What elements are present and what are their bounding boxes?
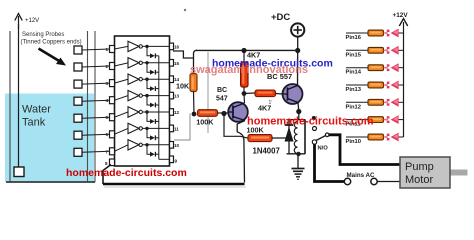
transistor Q2 BC557 [267,72,303,104]
+DC supply symbol [271,12,304,51]
probe 4 [74,97,110,105]
mains terminal N [371,178,377,184]
relay armature terminal [313,127,317,131]
positive rail [196,49,298,51]
pin 3 stub [105,80,114,87]
node coil bottom [296,152,300,156]
wire relay top bar [287,119,306,121]
annotation: sensing probes [21,32,82,66]
internal diode 1 [147,46,159,58]
svg-text:8: 8 [105,161,108,166]
svg-text:15: 15 [174,61,180,66]
pin 11 stub [170,125,180,132]
svg-text:4: 4 [105,98,108,103]
wire relay bottom bar [287,153,306,155]
legend row Pin16 [346,33,369,41]
resistor 4K7 (collector load) [241,48,261,94]
svg-text:11: 11 [174,126,179,131]
svg-text:homemade-circuits.com: homemade-circuits.com [66,167,187,179]
resistor legend 4 [368,82,384,88]
svg-text:Motor: Motor [405,174,433,186]
svg-text:homemade-circuits.com: homemade-circuits.com [247,116,374,128]
ghost line [207,52,209,133]
svg-text:2: 2 [105,64,108,69]
node collector junction [242,91,247,96]
LED 6 [384,115,404,124]
svg-text:N/O: N/O [318,146,329,152]
node base junction [192,112,197,117]
wire collector BC557 down [297,103,300,112]
probe 7 [74,148,110,156]
svg-text:Water: Water [22,104,51,116]
legend row Pin13 [346,85,369,93]
svg-text:Pin13: Pin13 [346,87,362,93]
svg-text:547: 547 [216,95,228,102]
wire to ground [297,154,299,169]
wire +12V down to common probe [18,24,20,167]
ground [292,169,305,180]
svg-text:Pin10: Pin10 [346,139,361,145]
svg-text:100K: 100K [196,118,214,127]
legend row Pin15 [346,50,369,58]
LED 1 [384,29,404,38]
LED 3 [384,63,404,72]
svg-text:Pin16: Pin16 [346,35,362,41]
inverter 7 [115,140,170,152]
svg-text:Pump: Pump [405,161,434,173]
relay pole terminal [312,116,316,120]
svg-text:9: 9 [175,159,178,164]
resistor 4K7 (base BC557) [255,90,283,113]
rail shadow [104,186,246,188]
wire emitter BC557 to rail [297,51,299,86]
stray dot [184,9,186,11]
svg-text:1: 1 [105,47,108,52]
wire collector up [243,94,246,104]
node +DC junction [295,48,300,53]
resistor legend 7 [368,134,384,140]
inverter 2 [115,58,170,68]
svg-text:10: 10 [174,143,180,148]
svg-text:+12V: +12V [393,12,409,19]
svg-text:Pin12: Pin12 [346,104,361,110]
water tank [5,31,95,182]
node base junction 2 [221,111,226,116]
mains terminal L [344,178,350,184]
svg-text:(Tinned Coppers ends): (Tinned Coppers ends) [21,39,82,45]
legend row Pin12 [346,102,369,110]
svg-text:1N4007: 1N4007 [253,147,280,156]
svg-text:5: 5 [105,115,108,120]
LED 5 [384,98,404,107]
pin 10 stub [170,142,180,149]
legend row Pin14 [346,68,369,76]
internal diode 6 [147,128,159,140]
inverter 4 [115,90,170,100]
+12V rail (legend) [393,12,409,137]
svg-text:Pin15: Pin15 [346,52,362,58]
pin 1 stub [105,46,114,53]
svg-text:12: 12 [174,110,180,115]
probe 3 [74,80,110,88]
N/O contact [312,140,328,152]
svg-text:7: 7 [105,149,108,154]
pin 12 stub [170,109,180,116]
wire N/O to mains [315,144,345,181]
resistor 100K (base) [196,110,229,127]
relay coil [294,120,305,154]
pin 8 stub [105,159,115,166]
inverter 5 [115,107,170,117]
svg-text:10K: 10K [176,82,190,91]
svg-text:1ʹ: 1ʹ [269,99,273,106]
node relay junction [296,109,301,114]
wire emitter down with hop [237,121,245,183]
common probe (tank bottom) [14,167,24,177]
wire arm to pump [329,135,400,165]
svg-text:+12V: +12V [25,18,39,24]
negative rail [103,183,245,186]
inverter 1 [115,41,170,51]
wire node to relay top [298,112,300,120]
wire collector node to 4K7 [244,92,255,95]
resistor legend 2 [368,47,384,53]
svg-text:6: 6 [105,132,108,137]
svg-text:16: 16 [174,44,180,49]
resistor legend 5 [368,99,384,105]
internal diode 3 [147,79,159,91]
wire feedback from base node [224,114,248,138]
svg-text:Sensing Probes: Sensing Probes [22,32,64,38]
svg-text:BC: BC [217,87,227,94]
svg-text:Pin14: Pin14 [346,70,362,76]
svg-text:13: 13 [174,94,180,99]
pin 7 stub [105,148,114,155]
resistor legend 1 [368,30,384,36]
inverter IC ULN2003 body [115,36,170,166]
diode 1N4007 [253,120,294,156]
svg-text:Mains AC: Mains AC [347,172,375,179]
LED 7 [384,133,404,142]
resistor 10K [176,74,197,115]
pin 13 stub [170,92,180,99]
LED 2 [384,46,404,55]
diode common bus to pin 9 [159,56,170,160]
pin 15 stub [170,60,180,67]
pin 16 stub [170,43,180,50]
pump motor box [400,157,450,188]
switch arm [316,135,327,140]
probe 6 [74,131,110,139]
wire pin 8 to ground rail [103,165,111,185]
internal diode 2 [147,63,159,75]
resistor legend 3 [368,65,384,71]
inverter 3 [115,74,170,84]
resistor 100K (feedback) [247,126,290,142]
svg-text:+DC: +DC [271,12,290,23]
svg-text:swagatam innovations: swagatam innovations [190,64,308,76]
wire pin16 to 10K [173,50,197,73]
pin 14 stub [170,76,180,83]
pin 5 stub [105,114,114,121]
svg-text:3: 3 [105,81,108,86]
legend row Pin11 [346,120,369,128]
LED 4 [384,81,404,90]
pin 2 stub [105,63,114,70]
transistor Q1 BC547 [216,87,248,122]
pin 4 stub [105,97,114,104]
legend row Pin10 [346,137,369,145]
pin 9 stub [170,156,178,164]
ghost line 2 [174,114,190,141]
pin 6 stub [105,131,114,138]
wire mains to pump [377,181,400,183]
probe 2 [74,63,110,71]
inverter 6 [115,123,170,134]
probe 5 [74,114,110,122]
svg-text:Tank: Tank [22,117,46,129]
resistor legend 6 [368,117,384,123]
probe 1 [74,46,110,54]
internal diode 5 [147,112,159,124]
pump motor shaft [450,170,468,176]
internal diode 7 [147,145,159,157]
internal diode 4 [147,96,159,108]
+12V supply arrow (left) [15,14,39,30]
